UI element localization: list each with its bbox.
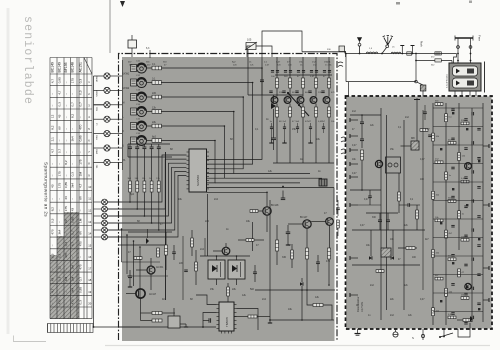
svg-text:0,3: 0,3 (79, 300, 83, 305)
wire strip rails (432, 103, 434, 325)
node page corner mark (14, 336, 47, 342)
svg-text:M8: M8 (411, 136, 415, 140)
wire strip link (433, 200, 483, 202)
resistor R15 (147, 125, 152, 127)
resistor R62 (461, 122, 469, 125)
svg-text:–: – (51, 174, 55, 176)
resistor R48 (157, 248, 160, 257)
transistor T7 (303, 220, 311, 228)
wire bus heavy (165, 152, 167, 300)
resistor R12 (147, 82, 152, 84)
svg-text:2,1: 2,1 (51, 137, 55, 142)
capacitor C78 (407, 203, 409, 207)
transistor T21 (465, 163, 472, 170)
svg-text:–: – (64, 139, 68, 141)
capacitor CT3 (tuner trimmer) (137, 92, 147, 102)
svg-text:470: 470 (79, 264, 83, 269)
op-amp U1 (SAS560 tuning IC) (189, 149, 207, 192)
resistor R72 (435, 219, 443, 222)
wire strip link (433, 255, 483, 257)
svg-text:4,7: 4,7 (51, 288, 55, 293)
node terminal P1 (94, 75, 105, 77)
diode D12 (470, 316, 473, 322)
svg-text:4k7: 4k7 (162, 298, 167, 301)
svg-text:0,85: 0,85 (64, 182, 68, 188)
wire step (458, 323, 470, 337)
svg-text:4,7: 4,7 (51, 79, 55, 84)
resistor R21 (129, 157, 131, 181)
svg-text:1M: 1M (71, 276, 75, 281)
capacitor C46 coupling (338, 62, 343, 67)
svg-text:AC117: AC117 (149, 293, 157, 296)
capacitor C82 (477, 127, 480, 129)
wire disc top (352, 229, 425, 231)
capacitor C23 (143, 144, 145, 147)
diode D1 (varicap) (271, 103, 276, 109)
resistor R66 (435, 161, 443, 164)
svg-text:–: – (79, 209, 83, 211)
svg-text:43: 43 (51, 184, 55, 188)
wire IF rail bottom (273, 162, 334, 164)
svg-text:–: – (58, 139, 62, 141)
capacitor C126 (471, 258, 473, 261)
svg-text:–: – (64, 291, 68, 293)
svg-text:UKW1: UKW1 (97, 75, 99, 82)
svg-text:BF195: BF195 (64, 62, 68, 72)
capacitor C54 (336, 207, 340, 209)
resistor R64 (448, 142, 456, 145)
svg-text:0,3: 0,3 (51, 218, 55, 223)
wire lamp stem (395, 329, 397, 332)
node stub L8 (350, 294, 358, 296)
resistor R59 (420, 129, 428, 132)
wire bus to AF 2 (207, 191, 268, 193)
svg-text:–: – (71, 93, 75, 95)
node top edge speck 2 (469, 1, 472, 4)
node voltage table text (51, 62, 92, 305)
node terminal Q2 (108, 208, 123, 210)
wire mid verticals (182, 236, 184, 300)
capacitor C114 (471, 141, 473, 144)
svg-text:470: 470 (79, 241, 83, 246)
resistor R71 (458, 211, 461, 219)
svg-text:–: – (64, 93, 68, 95)
svg-text:0,85: 0,85 (79, 135, 83, 141)
resistor R23 (143, 157, 145, 181)
resistor R58 (416, 210, 419, 219)
wire strip link (433, 311, 483, 313)
inductor L1 (366, 52, 378, 54)
capacitor C129 (471, 287, 473, 290)
wire loop1 (247, 46, 251, 57)
resistor R61 (445, 114, 448, 122)
svg-text:18: 18 (88, 278, 91, 282)
capacitor trimmer C30 (246, 43, 256, 50)
resistor R16 (147, 140, 152, 142)
svg-text:330: 330 (282, 256, 287, 259)
resistor R36 (246, 239, 254, 242)
node terminal Q1 (108, 201, 123, 203)
capacitor C61 (128, 275, 132, 277)
node stub L7 (350, 257, 358, 259)
node stub L4 (350, 163, 358, 165)
capacitor C93 (464, 234, 467, 236)
resistor R32 (306, 248, 309, 259)
wire IF rail top (275, 74, 332, 76)
diode bridge DB1 (208, 260, 225, 279)
transistor T20 (375, 160, 382, 167)
wire rail V1 (380, 108, 382, 320)
svg-text:470: 470 (58, 299, 62, 304)
wire v3 (422, 110, 424, 290)
wire fan 4 (161, 112, 234, 174)
resistor R45 (152, 312, 162, 315)
wire mid link (358, 204, 381, 206)
capacitor C25 (158, 144, 160, 147)
capacitor CT5 (tuner trimmer) (137, 121, 147, 131)
node coil M5 (417, 82, 423, 85)
node solder blobs (440, 112, 480, 310)
node main panel annotations (128, 128, 331, 311)
svg-text:12: 12 (51, 114, 55, 118)
resistor R49 (134, 257, 142, 260)
wire preset bus (108, 171, 187, 230)
svg-text:–: – (64, 303, 68, 305)
svg-text:220: 220 (205, 220, 210, 223)
wire strip link (433, 144, 483, 146)
node coil M8 (411, 141, 419, 150)
wire U2 feeds (196, 295, 217, 305)
resistor R82 (448, 316, 456, 319)
wire bl rail (128, 231, 172, 233)
node stub R (483, 145, 489, 147)
svg-text:175: 175 (64, 206, 68, 211)
resistor R41 (227, 287, 230, 296)
wire switch feed (443, 329, 445, 337)
wire panel bottom torn edge (122, 341, 335, 345)
ground G7 (185, 324, 187, 327)
transistor T10 (147, 266, 155, 274)
svg-text:TBA570: TBA570 (225, 316, 229, 327)
svg-text:TA: TA (123, 159, 126, 162)
node terminal Q6 (108, 236, 123, 238)
resistor R47 (165, 245, 168, 255)
node input labels (123, 74, 130, 162)
wire preset bus (108, 155, 187, 202)
wire ground bus (93, 76, 95, 327)
wire center rail (248, 94, 303, 96)
capacitor C44 (308, 90, 311, 92)
svg-text:5k6: 5k6 (250, 288, 255, 291)
node stub R (483, 204, 489, 206)
svg-text:15: 15 (88, 243, 91, 247)
wire strip link (433, 237, 483, 239)
capacitor CT4 (tuner trimmer) (137, 107, 147, 117)
capacitor C80 (451, 108, 454, 110)
wire strip link (433, 181, 483, 183)
svg-text:BC148: BC148 (271, 204, 279, 207)
svg-text:0,3: 0,3 (64, 242, 68, 247)
svg-text:43: 43 (58, 114, 62, 118)
svg-text:20: 20 (88, 302, 91, 306)
resistor R73 (445, 230, 448, 238)
resistor R81 (432, 308, 435, 316)
svg-text:4k7: 4k7 (287, 244, 292, 247)
resistor R67 (445, 172, 448, 180)
svg-text:0,47: 0,47 (425, 129, 430, 131)
diode D11 (391, 256, 394, 260)
capacitor C100 (477, 302, 480, 304)
svg-text:–: – (51, 198, 55, 200)
node right panel annotations (352, 111, 430, 317)
wire left rail (122, 60, 124, 170)
resistor R57 (398, 192, 401, 201)
node stub L3 (350, 149, 358, 151)
wire strip link (433, 126, 483, 128)
wire rail V2 (386, 115, 388, 310)
wire antenna feed (302, 51, 345, 53)
wire page shadow (105, 345, 490, 347)
svg-text:–: – (58, 163, 62, 165)
svg-text:1M: 1M (79, 218, 83, 223)
svg-text:0,47: 0,47 (420, 299, 425, 301)
resistor R38 (337, 220, 340, 228)
svg-text:1M: 1M (79, 172, 83, 177)
resistor R40 (248, 315, 257, 318)
capacitor C123 (471, 228, 473, 231)
wire bus ext 2 (224, 177, 322, 179)
svg-text:MW1: MW1 (97, 148, 99, 154)
node stub L2 (350, 135, 358, 137)
node terminal P6 (94, 147, 105, 149)
capacitor C43 (295, 90, 298, 92)
capacitor C42 (282, 90, 285, 92)
resistor R60 (435, 103, 443, 106)
svg-text:Nah: Nah (419, 41, 423, 47)
wire rail V3 (403, 120, 405, 310)
svg-text:4,7: 4,7 (79, 183, 83, 188)
capacitor C89 (451, 195, 454, 197)
node terminal Q5 (108, 229, 123, 231)
svg-text:Spannungswerte an 2s: Spannungswerte an 2s (44, 162, 49, 217)
diode D10 (369, 256, 372, 260)
svg-text:BC149: BC149 (58, 62, 62, 72)
resistor R69 (series) (407, 52, 412, 55)
wire long vertical 270 (269, 200, 271, 320)
capacitor C21 (129, 144, 131, 147)
svg-text:3k4: 3k4 (71, 183, 75, 188)
node switch S1 (288, 93, 298, 104)
svg-text:2n2: 2n2 (262, 298, 267, 301)
resistor R31 (276, 240, 279, 251)
svg-text:12: 12 (88, 208, 91, 212)
wire long vertical 302 (301, 290, 303, 320)
wire fan 1 (161, 68, 262, 159)
wire drop 267 (266, 192, 268, 207)
svg-text:220: 220 (179, 262, 184, 265)
node switch S10 (440, 333, 453, 337)
transistor T5 (BC149) (328, 57, 330, 78)
svg-text:–: – (79, 151, 83, 153)
transistor T9 (222, 247, 230, 255)
resistor R68 (461, 180, 469, 183)
svg-text:S: S (412, 336, 414, 340)
capacitor CT1 (tuner trimmer) (137, 63, 147, 73)
wire preset bus (108, 159, 187, 209)
resistor R78 (435, 277, 443, 280)
ground GC1 (284, 133, 286, 140)
wire strip link (433, 218, 483, 220)
node test point box (128, 40, 137, 48)
capacitor C51 (281, 197, 286, 199)
capacitor C111 (471, 112, 473, 115)
svg-text:–: – (58, 198, 62, 200)
capacitor C50 (286, 231, 291, 233)
capacitor C86 (451, 166, 454, 168)
node junctions antenna (457, 53, 459, 55)
capacitor C41 (269, 90, 272, 92)
svg-text:2n2: 2n2 (200, 248, 205, 251)
svg-text:2n2: 2n2 (214, 198, 219, 201)
resistor R69 (432, 191, 435, 199)
capacitor C63 (172, 251, 176, 253)
node registration mark (120, 1, 125, 7)
svg-text:0,3: 0,3 (79, 79, 83, 84)
svg-text:Fern: Fern (478, 35, 482, 42)
capacitor C95 (451, 254, 454, 256)
wire drop 207 (207, 194, 209, 256)
svg-text:–: – (71, 198, 75, 200)
capacitor C84 (464, 147, 467, 149)
svg-text:BC149: BC149 (51, 62, 55, 72)
capacitor C117 (471, 170, 473, 173)
node ratio detector coil (381, 248, 391, 257)
svg-text:UKW1: UKW1 (123, 74, 130, 76)
wire drop into panel (345, 52, 347, 57)
capacitor CT6 (tuner trimmer) (137, 136, 147, 146)
transistor T22 (465, 283, 471, 289)
wire preset bus (108, 176, 187, 238)
svg-text:–: – (71, 163, 75, 165)
inductor L5 (391, 52, 401, 53)
svg-text:8p2: 8p2 (152, 135, 157, 138)
capacitor C79 (423, 111, 427, 113)
node terminal P4 (94, 118, 105, 120)
wire strip link (433, 292, 483, 294)
resistor R76 (448, 258, 456, 261)
wire antenna main (345, 53, 457, 55)
svg-text:19: 19 (88, 290, 91, 294)
resistor R79 (445, 288, 448, 296)
capacitor C97 (477, 273, 480, 275)
wire cap row lower rail (128, 156, 172, 158)
svg-text:470: 470 (71, 299, 75, 304)
node lamp symbol (393, 332, 398, 337)
svg-text:0,7: 0,7 (79, 277, 83, 282)
transistor T3 (BF194) (302, 57, 304, 78)
svg-text:–: – (64, 81, 68, 83)
wire feeds to panels (345, 54, 347, 82)
capacitor C76 (386, 219, 390, 221)
svg-text:175: 175 (71, 78, 75, 83)
svg-text:11: 11 (88, 197, 91, 201)
svg-text:43: 43 (64, 196, 68, 200)
svg-text:–: – (79, 256, 83, 258)
svg-text:470: 470 (79, 124, 83, 129)
wire link (401, 145, 412, 147)
resistor R35 (291, 250, 294, 259)
node terminal P5 (94, 133, 105, 135)
resistor R46 (152, 319, 162, 322)
capacitor C22 (136, 144, 138, 147)
resistor R74 (461, 239, 469, 242)
svg-text:175: 175 (58, 183, 62, 188)
svg-text:–: – (51, 105, 55, 107)
svg-text:UKW2: UKW2 (97, 90, 99, 97)
wire drop D3 (133, 241, 135, 286)
node antenna switch block (449, 63, 481, 91)
resistor R77 (458, 269, 461, 277)
node stub L5 (350, 176, 358, 178)
svg-text:17: 17 (88, 267, 91, 271)
resistor R22 (136, 157, 138, 181)
svg-text:220: 220 (152, 92, 157, 95)
capacitor C71 (360, 138, 364, 140)
node connector stub J2 (412, 46, 414, 54)
svg-text:175: 175 (79, 159, 83, 164)
svg-text:8,2: 8,2 (51, 125, 55, 130)
svg-text:0,3: 0,3 (51, 253, 55, 258)
svg-text:175: 175 (58, 171, 62, 176)
svg-text:3k4: 3k4 (58, 229, 62, 234)
svg-text:8,2: 8,2 (64, 160, 68, 165)
capacitor C52 (316, 261, 320, 263)
svg-text:43: 43 (51, 277, 55, 281)
svg-text:0,47: 0,47 (420, 159, 425, 161)
resistor R14 (147, 111, 152, 113)
resistor R13 (147, 96, 152, 98)
ground GC0 (271, 133, 273, 140)
node FM/IF amplifier panel (346, 97, 492, 329)
capacitor CT2 (tuner trimmer) (137, 78, 147, 88)
node AM/FM tuner unit panel (122, 57, 335, 341)
svg-text:seniorlabde: seniorlabde (21, 16, 34, 105)
wire feed from antenna (416, 98, 418, 141)
wire bottom rail right (270, 319, 334, 321)
capacitor C91 (477, 215, 480, 217)
node switch capsule 2 (453, 78, 478, 88)
capacitor C101 (451, 312, 454, 314)
svg-text:13: 13 (88, 220, 91, 224)
resistor R50 (361, 150, 364, 160)
wire block right edge (484, 62, 486, 93)
svg-text:105: 105 (247, 38, 252, 42)
resistor R56 (406, 247, 415, 250)
svg-text:–: – (51, 303, 55, 305)
resistor R24 (151, 157, 153, 181)
svg-text:470: 470 (51, 229, 55, 234)
capacitor C53 (253, 271, 257, 273)
capacitor C79b (428, 134, 432, 136)
wire matrix rail (200, 255, 250, 257)
node IF panel boundary (dashed) (346, 96, 493, 329)
svg-text:–: – (71, 151, 75, 153)
ground G5 (269, 320, 271, 323)
node dipole bar (455, 37, 473, 39)
svg-text:–: – (51, 244, 55, 246)
svg-text:8,2: 8,2 (51, 207, 55, 212)
svg-text:UKW2: UKW2 (123, 88, 130, 90)
